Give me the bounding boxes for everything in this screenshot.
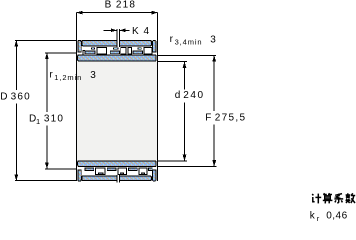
svg-text:310: 310 [44, 113, 64, 124]
label CJK 计算系数 (hand drawn strokes) [312, 193, 355, 203]
wire right face line [157, 13, 159, 182]
svg-text:3,4min: 3,4min [175, 38, 203, 47]
svg-text:218: 218 [116, 0, 136, 10]
svg-text:1,2min: 1,2min [54, 73, 82, 82]
svg-text:1: 1 [36, 117, 40, 126]
seal notch top left [77, 52, 81, 54]
svg-text:B: B [105, 0, 112, 10]
dim D1 line [46, 53, 48, 112]
char ji [312, 194, 321, 204]
cage pocket bottom 2 [118, 168, 127, 175]
svg-text:3: 3 [210, 35, 216, 46]
wire left face line [75, 13, 77, 182]
dim K arrows [104, 29, 117, 31]
dim D ext bottom [15, 180, 77, 182]
cage wall top-left [83, 51, 85, 55]
cage tab bottom 2 [120, 173, 123, 175]
dim D line [15, 40, 17, 90]
svg-text:0,46: 0,46 [326, 211, 347, 222]
char suan [323, 193, 333, 203]
cage tab top 1 [91, 48, 94, 50]
cage pocket bottom 1 [95, 168, 105, 175]
dim F ext top [158, 54, 217, 56]
svg-text:3: 3 [90, 70, 96, 81]
seal notch bottom left [77, 168, 81, 170]
outer ring top split gap [118, 40, 120, 47]
roller bottom 1 [85, 168, 94, 171]
roller bottom 2 [107, 168, 116, 171]
seal bottom right [153, 170, 156, 181]
dim d line [184, 62, 186, 90]
dim d ext bottom [158, 160, 187, 162]
dim D1 ext top [45, 52, 76, 54]
cage tab top 2 [114, 48, 118, 50]
char xi [334, 194, 343, 204]
seal top right [153, 40, 156, 51]
cage pocket top 2b [128, 47, 132, 54]
seal notch bottom right [153, 168, 157, 170]
dim F line [213, 55, 215, 110]
roller top 1 [85, 51, 95, 54]
cage tab bottom 1 [99, 173, 103, 175]
svg-text:275,5: 275,5 [215, 113, 247, 124]
dim d ext top [158, 61, 188, 63]
seal notch top right [153, 52, 157, 54]
inner ring top [78, 55, 156, 61]
roller top 3 [133, 51, 142, 54]
char shu [346, 193, 356, 203]
outer ring bottom split gap [118, 175, 120, 181]
cage tab bottom 3 [141, 173, 144, 175]
dim D ext top [15, 39, 77, 41]
roller bottom 3 [128, 168, 137, 171]
dim D1 ext bottom [45, 168, 76, 170]
roller top 2 [110, 51, 119, 54]
svg-text:240: 240 [183, 90, 205, 101]
dim B line [76, 12, 157, 14]
svg-text:K 4: K 4 [132, 26, 150, 37]
svg-text:d: d [175, 90, 181, 101]
cage tab top 3 [138, 48, 141, 50]
svg-text:D: D [0, 91, 7, 102]
seal top left [78, 40, 81, 51]
cage pocket top 1 [97, 47, 107, 54]
roller bottom 4 [148, 168, 154, 171]
cage pocket bottom 3 [139, 168, 147, 175]
seal bottom left [78, 170, 81, 181]
cage pocket top 2 [121, 47, 126, 54]
outer ring bottom [82, 176, 152, 181]
outer ring top [82, 40, 152, 46]
svg-text:360: 360 [11, 91, 31, 102]
bore area (light gray) [77, 62, 158, 161]
dim F ext bottom [158, 165, 217, 167]
inner ring bottom [78, 161, 156, 167]
cage pocket top 3 [144, 47, 152, 54]
svg-text:F: F [205, 113, 211, 124]
